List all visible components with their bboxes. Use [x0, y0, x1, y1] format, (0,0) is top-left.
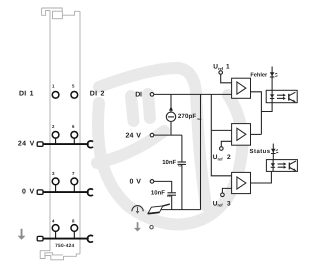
ground arrow (module row)	[18, 229, 26, 240]
chassis tool symbol	[148, 204, 170, 214]
svg-text:10nF: 10nF	[162, 159, 176, 166]
module outline 750-424	[40, 8, 80, 260]
pin 6	[71, 124, 78, 144]
clamp 0V row	[87, 189, 93, 196]
LED Status	[271, 144, 278, 160]
svg-text:DI 2: DI 2	[90, 91, 105, 98]
svg-text:3: 3	[227, 200, 231, 207]
capacitor C1 10nF	[178, 135, 187, 210]
wire 24V row	[43, 143, 89, 145]
wire ground bus	[153, 209, 201, 211]
svg-text:2: 2	[227, 154, 231, 161]
op-amp U1	[232, 78, 251, 98]
wire ground row	[43, 238, 89, 240]
wire 24V rail	[154, 134, 182, 136]
pin 7	[71, 171, 78, 192]
svg-text:ca: ca	[178, 164, 182, 168]
earth symbol (arc with arrow)	[132, 206, 143, 214]
wire DI rail	[154, 93, 232, 95]
svg-text:ca: ca	[167, 194, 171, 198]
terminal circle (schematic, bottom)	[150, 226, 153, 229]
node Uref1	[213, 64, 231, 83]
svg-text:Status: Status	[250, 148, 271, 155]
optocoupler OK2	[266, 160, 297, 172]
svg-text:0 V: 0 V	[22, 188, 35, 195]
terminal box 24V	[37, 142, 43, 147]
pin 8	[71, 218, 78, 238]
pin 1	[52, 84, 59, 99]
wire U2 output	[251, 133, 262, 135]
terminal box 0V	[37, 190, 43, 195]
optocoupler OK1	[266, 90, 297, 102]
LED Fehler	[270, 67, 278, 91]
wire 0V rail	[154, 180, 172, 182]
op-amp U2	[232, 124, 251, 146]
node Uref3	[213, 188, 232, 207]
current source with 270pF label	[166, 94, 175, 135]
svg-text:ref: ref	[218, 203, 224, 208]
pin 5	[71, 84, 78, 99]
pin 3	[52, 171, 59, 192]
pin 4	[52, 218, 59, 238]
svg-text:Fehler: Fehler	[250, 72, 268, 79]
wire U1 output	[251, 92, 262, 135]
clamp 24V row	[87, 141, 93, 148]
pin 2	[52, 124, 59, 144]
op-amp U3	[232, 172, 251, 193]
wire 0V row	[43, 191, 89, 193]
wire U3 output to opto2	[251, 171, 272, 183]
svg-text:1: 1	[226, 64, 230, 71]
svg-text:750-424: 750-424	[55, 243, 74, 249]
svg-text:DI 1: DI 1	[19, 91, 34, 98]
ground arrow (schematic)	[134, 222, 141, 231]
svg-text:24 V: 24 V	[126, 132, 142, 139]
capacitor C2 10nF	[168, 181, 177, 209]
svg-text:DI: DI	[135, 92, 142, 99]
node Uref2	[213, 141, 232, 161]
terminal box ground row	[37, 236, 43, 241]
svg-text:ref: ref	[218, 156, 224, 161]
wire DI to ground bus	[200, 94, 202, 209]
wire DI branch to comparators	[211, 94, 231, 175]
svg-text:ref: ref	[218, 66, 224, 71]
svg-text:24 V: 24 V	[18, 140, 35, 147]
wire to opto1	[261, 103, 272, 112]
clamp ground row	[87, 235, 93, 242]
svg-text:10nF: 10nF	[151, 189, 165, 196]
svg-text:270pF: 270pF	[178, 113, 197, 120]
svg-text:0 V: 0 V	[129, 179, 141, 186]
